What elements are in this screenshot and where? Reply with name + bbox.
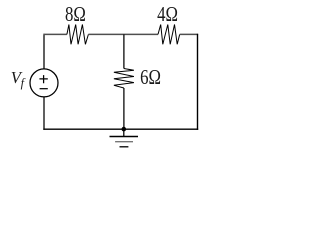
svg-text:f: f [21,76,26,90]
resistor R3 6ohm vertical zigzag [114,69,134,89]
wire: bottom rail [43,128,198,130]
svg-text:4Ω: 4Ω [157,3,178,26]
ground bar 1 [110,136,139,138]
wire: middle branch to bottom rail [123,88,125,129]
wire: top-right segment [180,33,198,35]
plus sign inside source [39,75,47,83]
resistor R1 8ohm zigzag [67,25,89,45]
svg-text:8Ω: 8Ω [65,3,86,26]
voltage source U1 circle [30,69,58,97]
node: junction dot [122,127,127,132]
ground bar 3 [120,146,129,148]
wire: top middle segment [88,33,158,35]
resistor R2 4ohm zigzag [158,25,180,45]
wire: ground stub [123,129,125,136]
wire: left rail bottom [43,97,45,130]
wire: top-left segment [43,33,67,35]
ground bar 2 [115,141,133,143]
svg-text:6Ω: 6Ω [140,66,161,89]
wire: middle branch from top rail [123,34,125,68]
wire: right rail [197,34,199,130]
minus sign inside source [40,88,48,90]
wire: left rail top [43,34,45,69]
